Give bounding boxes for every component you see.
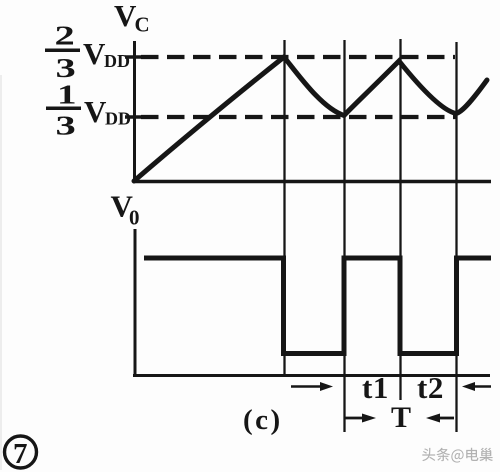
right arrow bbox=[426, 414, 440, 423]
svg-text:0: 0 bbox=[129, 206, 140, 230]
Vc x-axis bbox=[133, 180, 491, 184]
T dimension row bbox=[344, 401, 454, 434]
svg-text:C: C bbox=[135, 13, 150, 37]
node line x=400 bbox=[399, 39, 401, 400]
right arrow bbox=[462, 382, 475, 391]
capacitor voltage waveform bbox=[134, 57, 487, 181]
label 1/3 VDD bbox=[46, 80, 131, 141]
node line x=284 bbox=[283, 40, 285, 376]
svg-text:T: T bbox=[391, 401, 411, 434]
V0 y-axis bbox=[134, 229, 137, 377]
svg-text:1: 1 bbox=[57, 80, 77, 110]
svg-text:3: 3 bbox=[56, 53, 76, 83]
axis label V_C bbox=[114, 0, 150, 37]
label 2/3 VDD bbox=[45, 21, 130, 83]
Vc y-axis bbox=[133, 41, 136, 183]
svg-text:V: V bbox=[84, 94, 107, 129]
t1 t2 dimension row bbox=[291, 370, 491, 405]
left arrow bbox=[344, 417, 366, 420]
svg-text:(c): (c) bbox=[243, 404, 283, 436]
svg-text:2: 2 bbox=[55, 21, 75, 51]
axis label V_0 bbox=[111, 189, 140, 230]
node line x=456 bbox=[455, 42, 457, 432]
svg-text:t1: t1 bbox=[362, 370, 389, 405]
svg-text:7: 7 bbox=[13, 438, 28, 470]
svg-text:3: 3 bbox=[56, 111, 76, 141]
svg-text:DD: DD bbox=[104, 51, 130, 71]
circled number 7 bbox=[5, 436, 37, 470]
V0 x-axis bbox=[133, 374, 490, 377]
node line x=344 bbox=[343, 40, 345, 432]
tick 2/3 VDD bbox=[125, 55, 146, 59]
dashed threshold 1/3 VDD bbox=[141, 115, 457, 119]
left arrow bbox=[291, 385, 324, 388]
dashed threshold 2/3 VDD bbox=[141, 55, 455, 59]
tick 1/3 VDD bbox=[125, 115, 146, 119]
svg-text:t2: t2 bbox=[417, 370, 444, 405]
watermark bbox=[422, 448, 493, 463]
svg-text:V: V bbox=[83, 36, 106, 71]
output square wave bbox=[144, 258, 491, 354]
